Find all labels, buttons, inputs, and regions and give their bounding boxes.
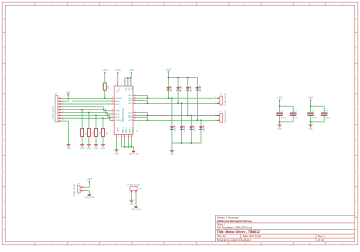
svg-text:2: 2 <box>130 81 131 83</box>
svg-text:+3V3: +3V3 <box>87 179 93 181</box>
wire to LED D4 <box>197 78 199 87</box>
wire rail to LED D5 <box>171 98 173 126</box>
capacitor C right 10uF <box>321 111 331 120</box>
svg-text:CONN_01X02: CONN_01X02 <box>225 92 227 106</box>
svg-text:1: 1 <box>129 192 130 194</box>
svg-text:PGND1: PGND1 <box>121 128 123 135</box>
LED D8 <box>198 125 205 131</box>
LED D2 <box>175 86 182 92</box>
title block <box>215 215 354 242</box>
capacitor C right 1uF <box>290 111 299 120</box>
wire LED D2 to rail <box>177 91 179 104</box>
svg-text:Size: A4: Size: A4 <box>217 235 226 238</box>
svg-text:D?: D? <box>179 126 181 128</box>
svg-text:3: 3 <box>130 136 131 138</box>
wire P1 pin6 to BIN2 <box>61 112 108 114</box>
svg-text:PWR_FLAG: PWR_FLAG <box>131 208 141 211</box>
wire to LED D2 <box>177 78 179 87</box>
wire to ground <box>310 122 312 125</box>
junction D7 <box>191 115 193 117</box>
junction LED rail <box>168 77 170 79</box>
svg-text:PWMA: PWMA <box>115 97 122 100</box>
junction R1 tap <box>81 109 83 111</box>
svg-text:10uF: 10uF <box>325 117 330 119</box>
wire R3 to ground <box>95 137 97 145</box>
power flag on PGND <box>129 150 139 156</box>
wire P1 pin8 <box>61 117 111 119</box>
LED D7 <box>189 125 196 131</box>
wire P5 pin2 to flag <box>135 192 137 205</box>
junction cap bottom <box>310 121 312 123</box>
svg-text:1: 1 <box>112 109 113 111</box>
resistor R4 <box>99 129 108 137</box>
wire cap bus bottom <box>310 115 312 122</box>
power +VM above IC VM pins <box>125 70 134 82</box>
power +3V3 for LEDs <box>166 69 172 77</box>
wire cap bus bottom <box>279 115 281 122</box>
svg-text:CONN_01X02: CONN_01X02 <box>127 185 141 187</box>
wire LED D8 to gnd rail <box>200 130 202 143</box>
svg-text:Title: Motor Driver - TB6612: Title: Motor Driver - TB6612 <box>217 230 260 234</box>
wire LED D4 to rail <box>197 91 199 121</box>
junction PGND bus <box>124 146 126 148</box>
wire cap bus top <box>280 105 294 107</box>
resistor R2 <box>85 129 94 137</box>
svg-text:Id: 1/1: Id: 1/1 <box>318 240 325 242</box>
svg-text:+VM: +VM <box>308 98 313 100</box>
junction D6 <box>181 103 183 105</box>
svg-text:24: 24 <box>136 131 138 133</box>
ground below P1 pin9 <box>66 145 71 151</box>
svg-text:1: 1 <box>112 116 113 118</box>
svg-text:1: 1 <box>215 97 216 99</box>
wire R2 to ground <box>88 137 90 145</box>
svg-text:+3V3: +3V3 <box>115 70 121 72</box>
svg-text:LED: LED <box>175 127 177 131</box>
svg-text:D?: D? <box>195 87 197 89</box>
svg-text:2: 2 <box>135 116 136 118</box>
svg-text:+3V3: +3V3 <box>166 69 172 71</box>
wire P1 pin1 to PWMA <box>61 97 111 99</box>
power +3V3 at P4 <box>87 179 93 183</box>
svg-text:STBY: STBY <box>115 111 121 113</box>
capacitor C left 0.1uF <box>276 106 286 119</box>
wire rail to LED D8 <box>200 120 202 126</box>
svg-text:3: 3 <box>118 136 119 138</box>
svg-text:PGND1: PGND1 <box>124 128 126 135</box>
ground below caps <box>277 125 282 131</box>
wire P1 pin4 to STBY <box>61 106 104 108</box>
wire to resistor R2 <box>88 113 90 129</box>
junction R3 tap <box>95 115 97 117</box>
wire AIN2 to IC <box>72 100 111 102</box>
svg-text:GND: GND <box>66 148 71 150</box>
svg-text:LED: LED <box>184 127 186 131</box>
junction D4 <box>197 120 199 122</box>
ground below caps <box>308 125 313 131</box>
svg-text:VM3: VM3 <box>131 87 133 91</box>
svg-text:GND: GND <box>129 204 134 206</box>
svg-text:3: 3 <box>133 136 134 138</box>
junction VM bus <box>127 77 128 79</box>
wire LED supply rail <box>168 77 197 79</box>
junction D3 <box>187 115 189 117</box>
wire P4 pin1 to +3V3 <box>83 186 89 188</box>
junction D8 <box>200 120 202 122</box>
ground below LEDs <box>170 150 175 156</box>
svg-text:+3V3: +3V3 <box>102 70 108 72</box>
LED D6 <box>179 125 186 131</box>
connector P3 CONN_01X02 motor <box>215 109 227 123</box>
svg-text:3: 3 <box>123 136 124 138</box>
connector P1 CONN_01X09 <box>53 93 64 121</box>
power +3V3 above IC VCC pin <box>115 70 121 82</box>
wire output rails A01 A02 B02 B01 <box>137 95 219 121</box>
wire PGND bus <box>120 138 122 147</box>
junction cap top <box>310 105 312 107</box>
connector P2 CONN_01X02 motor <box>215 92 227 106</box>
svg-text:Rev: 1: Rev: 1 <box>318 236 325 238</box>
svg-text:PWMB: PWMB <box>115 120 122 122</box>
svg-text:1: 1 <box>215 102 216 104</box>
wire P4 pin2 to flag <box>83 190 89 192</box>
wire rail to LED D7 <box>190 116 192 127</box>
svg-text:Oklahoma Biological Survey: Oklahoma Biological Survey <box>217 219 253 223</box>
ground below R1 <box>80 145 85 151</box>
svg-text:1: 1 <box>215 114 216 116</box>
junction D2 <box>177 103 179 105</box>
junction R5/PWMA <box>104 98 106 100</box>
LED D1 <box>166 86 173 92</box>
wire P1 pin7 to PWMB <box>61 114 110 116</box>
svg-text:GND: GND <box>116 128 118 133</box>
svg-text:VM1: VM1 <box>125 87 127 91</box>
svg-text:STBY: STBY <box>66 92 72 94</box>
IC U1 left pins <box>111 97 122 123</box>
ground below R4 <box>101 145 106 151</box>
capacitor C left 0.1uF <box>307 106 317 119</box>
power flag at P5 <box>131 205 141 211</box>
svg-text:GND: GND <box>101 148 106 150</box>
wire LED D7 to gnd rail <box>190 130 192 143</box>
wire P1 pin3 to AIN1 <box>61 103 111 105</box>
wire LED D3 to rail <box>187 91 189 116</box>
IC U1 TB6612FNG body <box>114 86 133 135</box>
svg-text:+3V3: +3V3 <box>277 98 283 100</box>
wire to LED D3 <box>187 78 189 87</box>
connector P5 CONN_01X02 <box>127 185 143 195</box>
svg-text:1: 1 <box>112 102 113 104</box>
svg-text:GND: GND <box>114 153 119 155</box>
svg-text:D?: D? <box>169 126 171 128</box>
svg-text:2: 2 <box>135 119 136 121</box>
svg-text:GND: GND <box>277 129 282 131</box>
svg-text:LED: LED <box>194 127 196 131</box>
svg-text:2: 2 <box>135 111 136 113</box>
svg-text:PGND2: PGND2 <box>128 128 130 135</box>
svg-text:D?: D? <box>185 87 187 89</box>
svg-text:2: 2 <box>135 99 136 101</box>
svg-text:LED: LED <box>190 88 192 92</box>
wire to LED D1 <box>167 78 169 87</box>
ground at P5 <box>129 200 134 206</box>
wire R1 to ground <box>81 137 83 145</box>
svg-text:2: 2 <box>124 81 125 83</box>
wire cap bus top <box>311 105 325 107</box>
svg-text:PGND2: PGND2 <box>131 128 133 135</box>
wire P1 pin9 to ground <box>61 120 69 122</box>
resistor R5 pull-up <box>101 83 110 99</box>
svg-text:D?: D? <box>175 87 177 89</box>
svg-text:3: 3 <box>126 136 127 138</box>
svg-text:LED: LED <box>200 88 202 92</box>
junction cap top <box>279 105 281 107</box>
svg-text:1: 1 <box>112 100 113 102</box>
power +3V3 above R5 pull-up <box>102 70 108 83</box>
svg-text:1: 1 <box>112 112 113 114</box>
svg-text:VM2: VM2 <box>128 87 130 91</box>
svg-text:GND: GND <box>94 148 99 150</box>
wire P1 pin2 stub up to no-connect <box>61 100 68 102</box>
resistor R3 <box>92 129 101 137</box>
junction R2 tap <box>88 112 90 114</box>
wire rail to LED D6 <box>181 103 183 126</box>
svg-text:D?: D? <box>189 126 191 128</box>
power flag at P4 <box>85 193 95 199</box>
svg-text:CONN_01X02: CONN_01X02 <box>74 183 76 197</box>
power +3V3 for caps <box>277 98 283 107</box>
svg-text:GND: GND <box>87 148 92 150</box>
svg-text:GND: GND <box>80 148 85 150</box>
LED D5 <box>169 125 176 131</box>
no-connect X on P1 pin2 net <box>67 93 69 95</box>
IC U1 top pins VCC VM1 VM2 VM3 <box>116 81 132 92</box>
wire gnd drop <box>171 143 173 150</box>
junction cap bottom <box>279 121 281 123</box>
svg-text:D?: D? <box>198 126 200 128</box>
wire LED D5 to gnd rail <box>171 130 173 143</box>
svg-text:PWR_FLAG: PWR_FLAG <box>85 196 95 199</box>
wire LED D1 to rail <box>167 91 169 98</box>
svg-text:Sheet: /: Sheet: / <box>217 223 225 226</box>
wire VM bus <box>125 77 131 79</box>
junction R4 tap <box>102 118 104 120</box>
junction D1 <box>168 97 170 99</box>
svg-text:1: 1 <box>134 192 135 194</box>
svg-text:2: 2 <box>127 81 128 83</box>
resistor R1 <box>79 129 88 137</box>
ground below IC <box>114 150 119 156</box>
wire LED ground rail <box>172 142 201 144</box>
svg-text:LED: LED <box>204 127 206 131</box>
wire to ground <box>279 122 281 125</box>
svg-text:D?: D? <box>166 87 168 89</box>
svg-text:2: 2 <box>116 81 117 83</box>
svg-text:CONN_01X09: CONN_01X09 <box>53 105 55 119</box>
wire R4 to ground <box>102 137 104 145</box>
svg-text:+VM: +VM <box>129 70 134 72</box>
svg-text:PWR_FLAG: PWR_FLAG <box>129 153 139 156</box>
svg-text:Date: 2017-12-05: Date: 2017-12-05 <box>243 235 262 238</box>
svg-text:2: 2 <box>135 102 136 104</box>
wire LED D6 to gnd rail <box>181 130 183 143</box>
svg-text:0.1uF: 0.1uF <box>312 117 318 119</box>
junction D5 <box>171 97 173 99</box>
svg-text:1: 1 <box>215 119 216 121</box>
wire to resistor R4 <box>102 118 104 128</box>
connector P4 CONN_01X02 power input <box>74 183 85 197</box>
junction LED ground rail <box>181 142 183 144</box>
wire GND pin down <box>116 138 118 150</box>
svg-text:LED: LED <box>181 88 183 92</box>
wire P5 pin1 to ground <box>131 192 133 200</box>
power +VM for caps <box>308 98 313 107</box>
svg-text:GND: GND <box>308 129 313 131</box>
svg-text:KiCad E.D.A. kicad 4.0.6+dfsg: KiCad E.D.A. kicad 4.0.6+dfsg1-1 <box>217 239 252 242</box>
svg-text:2: 2 <box>135 94 136 96</box>
wire to resistor R1 <box>81 110 83 129</box>
ground below R3 <box>94 145 99 151</box>
svg-text:CONN_01X02: CONN_01X02 <box>225 109 227 123</box>
svg-text:1: 1 <box>112 97 113 99</box>
LED D4 <box>195 86 202 92</box>
wire R5 to PWMA net <box>104 90 106 98</box>
wire P1 pin5 to BIN1 <box>61 109 106 111</box>
ground below R2 <box>87 145 92 151</box>
svg-text:1: 1 <box>112 119 113 121</box>
svg-text:VCC: VCC <box>117 87 119 92</box>
wire to resistor R3 <box>95 115 97 128</box>
svg-text:LED: LED <box>171 88 173 92</box>
svg-text:0.1uF: 0.1uF <box>281 117 287 119</box>
LED D3 <box>185 86 192 92</box>
svg-text:GND: GND <box>170 154 175 156</box>
IC U1 right pins <box>128 94 136 122</box>
IC U1 bottom pins GND PGND1 PGND2 <box>116 128 138 139</box>
